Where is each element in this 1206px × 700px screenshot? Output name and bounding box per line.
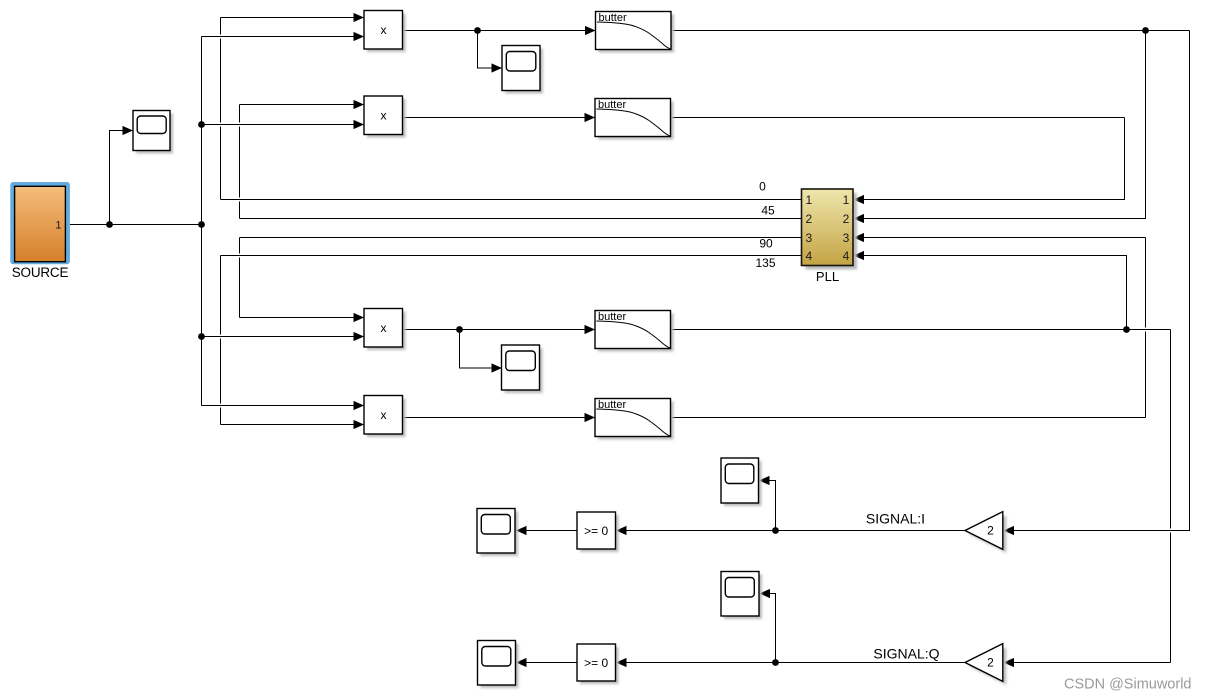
subsystem PLL — [802, 189, 858, 284]
wire branch down to Scope3 — [460, 330, 503, 369]
wire Butter3 out to right — [671, 329, 1171, 331]
source block SOURCE (selected) — [10, 182, 70, 280]
wire right feedback into PLL in4 — [854, 256, 1127, 330]
gain 2 (Q) — [965, 644, 1006, 685]
wire branch up to Scope Q — [760, 594, 776, 663]
node source-scope1 branch — [106, 221, 113, 228]
arrow into butter4 — [585, 413, 596, 422]
svg-text:SIGNAL:I: SIGNAL:I — [866, 511, 925, 527]
node gainI-scopeI branch — [772, 527, 779, 534]
wire right feedback into PLL in3 — [854, 237, 1146, 239]
wire to SIGNAL:I gain — [1004, 31, 1190, 531]
arrow into butter2 — [585, 113, 596, 122]
wire bus to product P1 in2 — [202, 36, 365, 38]
wire bus to product P2 in2 — [202, 124, 365, 126]
arrow into PLL in2 — [854, 214, 865, 223]
arrow into display I — [516, 526, 527, 535]
svg-text:x: x — [381, 109, 387, 123]
svg-text:SOURCE: SOURCE — [12, 265, 69, 280]
svg-text:x: x — [381, 23, 387, 37]
svg-text:90: 90 — [759, 237, 773, 251]
wire gain Q out to compare block — [616, 662, 965, 664]
filter butter1 — [596, 12, 675, 53]
wire P2 out to Butter2 — [403, 117, 596, 119]
node butter3out branch — [1123, 326, 1130, 333]
arrow into P2 in2 — [354, 120, 365, 129]
svg-text:4: 4 — [805, 249, 812, 263]
wire SOURCE output to bus — [70, 224, 202, 226]
svg-text:x: x — [381, 321, 387, 335]
node gainQ-scopeQ branch — [772, 659, 779, 666]
node P1out-scope2 branch — [474, 27, 481, 34]
arrow into compare Q — [616, 658, 627, 667]
svg-text:>= 0: >= 0 — [584, 524, 608, 538]
arrow into PLL in4 — [854, 251, 865, 260]
arrow into scope Q — [760, 589, 771, 598]
svg-text:SIGNAL:Q: SIGNAL:Q — [873, 646, 939, 662]
filter butter4 — [595, 399, 674, 440]
wire right feedback into PLL in2 — [854, 31, 1146, 219]
arrow into P4 in2 — [354, 420, 365, 429]
svg-text:PLL: PLL — [816, 269, 839, 284]
node bus-P2 branch — [198, 121, 205, 128]
svg-text:3: 3 — [805, 231, 812, 245]
scope Scope1 — [133, 111, 173, 154]
scope Scope2 — [502, 46, 543, 94]
arrow into butter3 — [585, 325, 596, 334]
wire PLL out1 (0 deg) to P1 in1 — [221, 199, 802, 201]
wire P1 out to Butter1 — [403, 30, 596, 32]
product P4 — [364, 396, 406, 438]
svg-text:2: 2 — [987, 524, 994, 538]
wire gain I out to compare block — [616, 530, 965, 532]
product P1 — [364, 11, 406, 53]
svg-text:1: 1 — [55, 220, 61, 232]
node source-bus — [198, 221, 205, 228]
wire compare I to display I — [516, 530, 577, 532]
node butter1out branch — [1142, 27, 1149, 34]
wire PLL out4 (135 deg) to P4 in2 — [221, 255, 802, 257]
arrow into gain Q — [1004, 658, 1015, 667]
wire P4 out to Butter4 — [403, 417, 596, 419]
wire main signal bus vertical — [201, 37, 203, 406]
wire PLL out3 (90 deg) to P3 in1 — [240, 237, 802, 239]
scope ScopeQ — [721, 572, 762, 620]
arrow into butter1 — [585, 26, 596, 35]
display DisplayQ — [478, 641, 519, 689]
arrow into P1 in2 — [354, 32, 365, 41]
wire Butter4 out to right — [671, 417, 1146, 419]
product P2 — [364, 96, 406, 138]
svg-text:CSDN @Simuworld: CSDN @Simuworld — [1064, 677, 1192, 693]
svg-text:1: 1 — [805, 193, 812, 207]
wire branch up to Scope1 — [110, 131, 134, 225]
gain 2 (I) — [965, 512, 1006, 553]
arrow into P4 in1 — [354, 401, 365, 410]
arrow into P2 in1 — [354, 100, 365, 109]
arrow into scope I — [759, 476, 770, 485]
svg-text:4: 4 — [843, 249, 850, 263]
arrow into scope1 — [123, 126, 134, 135]
node P3out-scope3 branch — [456, 326, 463, 333]
svg-text:1: 1 — [843, 193, 850, 207]
arrow into scope3 — [492, 363, 503, 372]
arrow into gain I — [1004, 526, 1015, 535]
arrow into P3 in1 — [354, 313, 365, 322]
arrow into P1 in1 — [354, 13, 365, 22]
compare block >= 0 (Q) — [577, 644, 619, 684]
wire P3 out to Butter3 — [403, 329, 596, 331]
arrow into scope2 — [492, 63, 503, 72]
display DisplayI — [477, 509, 518, 557]
svg-text:3: 3 — [843, 231, 850, 245]
wire compare Q to display Q — [516, 662, 577, 664]
arrow into PLL in1 — [854, 195, 865, 204]
arrow into compare I — [616, 526, 627, 535]
node bus-P3 branch — [198, 333, 205, 340]
wire Butter1 out across top to right — [671, 30, 1190, 32]
wire bus to product P3 in2 — [202, 336, 365, 338]
arrow into display Q — [516, 658, 527, 667]
arrow into P3 in2 — [354, 332, 365, 341]
wire branch down to Scope2 — [478, 31, 503, 69]
filter butter2 — [595, 99, 674, 140]
product P3 — [364, 309, 406, 351]
scope Scope3 — [502, 345, 543, 393]
svg-text:0: 0 — [759, 180, 766, 194]
svg-text:>= 0: >= 0 — [584, 656, 608, 670]
svg-text:45: 45 — [761, 204, 775, 218]
svg-text:2: 2 — [805, 212, 812, 226]
svg-text:2: 2 — [987, 656, 994, 670]
wire right feedback into PLL in1 — [854, 118, 1125, 200]
svg-text:135: 135 — [755, 256, 775, 270]
wire bus to product P4 in1 — [202, 405, 365, 407]
wire to SIGNAL:Q gain — [1170, 330, 1172, 529]
wire PLL out2 (45 deg) to P2 in1 — [240, 218, 802, 220]
wire branch up to Scope I — [759, 481, 776, 531]
arrow into PLL in3 — [854, 233, 865, 242]
compare block >= 0 (I) — [577, 512, 619, 552]
svg-text:x: x — [381, 408, 387, 422]
svg-text:2: 2 — [843, 212, 850, 226]
scope ScopeI — [721, 458, 762, 506]
wire Butter2 out to right — [671, 117, 1125, 119]
filter butter3 — [595, 311, 674, 352]
